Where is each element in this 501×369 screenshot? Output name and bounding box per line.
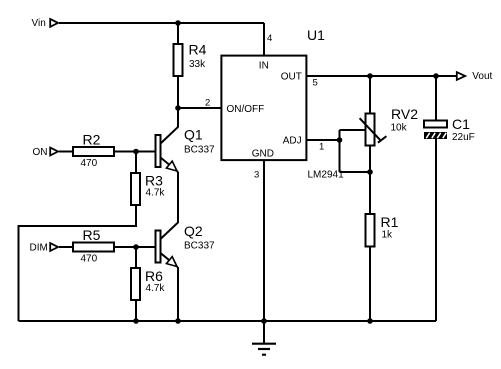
- svg-text:470: 470: [81, 158, 98, 169]
- svg-text:R5: R5: [83, 227, 101, 243]
- potentiometer RV2: [360, 106, 419, 146]
- svg-text:R4: R4: [189, 42, 207, 58]
- svg-text:Q2: Q2: [184, 223, 203, 239]
- resistor R5: [73, 227, 114, 265]
- ground symbol: [252, 344, 276, 355]
- svg-text:OUT: OUT: [281, 71, 302, 82]
- wire Q1 emitter to Q2 collector: [161, 172, 179, 240]
- svg-text:470: 470: [81, 254, 98, 265]
- junction node R4 top: [175, 20, 181, 26]
- wire ADJ pin 1: [307, 139, 340, 141]
- svg-text:33k: 33k: [189, 59, 206, 70]
- wire R4 top stub: [177, 23, 179, 44]
- wire bottom ground rail: [19, 320, 437, 322]
- wire R5 to Q2 base: [114, 246, 156, 248]
- svg-text:Q1: Q1: [184, 127, 203, 143]
- transistor Q1: [156, 108, 216, 172]
- resistor R3: [131, 173, 165, 206]
- svg-text:ADJ: ADJ: [283, 135, 302, 146]
- svg-text:4: 4: [267, 33, 272, 44]
- svg-text:U1: U1: [307, 27, 325, 43]
- svg-text:1k: 1k: [382, 230, 394, 241]
- svg-text:3: 3: [254, 170, 259, 181]
- transistor Q2: [156, 223, 216, 267]
- wire pin4 drop to IN: [263, 23, 265, 57]
- svg-text:IN: IN: [259, 60, 269, 71]
- junction node C1 top: [433, 73, 439, 79]
- junction node R1 ground: [367, 318, 373, 324]
- junction node Q2 emitter ground: [175, 318, 181, 324]
- svg-text:LM2941: LM2941: [308, 170, 345, 181]
- input flag Vin: [32, 18, 59, 29]
- op-amp U1 IC body LM2941: [221, 56, 306, 161]
- wire ON input to R2: [59, 151, 73, 153]
- resistor R2: [73, 132, 114, 170]
- wire R1 bottom stub: [369, 247, 371, 322]
- svg-text:ON: ON: [33, 147, 48, 158]
- junction node RV2 bottom: [367, 169, 373, 175]
- junction node ADJ: [337, 137, 343, 143]
- svg-text:C1: C1: [452, 116, 470, 132]
- svg-text:RV2: RV2: [391, 106, 418, 122]
- junction node Q1 base: [133, 149, 139, 155]
- wire ADJ loop bottom: [340, 171, 371, 173]
- wire Vin top rail: [59, 22, 264, 24]
- wire R6 top stub: [135, 247, 137, 268]
- junction node R6 ground: [133, 318, 139, 324]
- junction node Q2 base: [133, 244, 139, 250]
- wire RV2 wiper connection: [340, 129, 366, 131]
- resistor R1: [366, 214, 399, 247]
- wire R6 bottom stub: [135, 300, 137, 321]
- junction node GND stem: [261, 318, 267, 324]
- resistor R6: [131, 268, 165, 300]
- svg-text:GND: GND: [252, 149, 274, 160]
- wire Q2 emitter to rail: [177, 267, 179, 321]
- wire C1 bottom stub: [435, 139, 437, 321]
- svg-text:Vin: Vin: [32, 18, 46, 29]
- svg-text:BC337: BC337: [184, 241, 215, 252]
- svg-text:4.7k: 4.7k: [146, 283, 166, 294]
- wire RV2 bottom to R1 top: [369, 146, 371, 215]
- input flag DIM: [30, 243, 59, 254]
- wire node to ON/OFF pin 2: [178, 107, 222, 109]
- svg-text:R2: R2: [83, 132, 101, 148]
- capacitor C1: [424, 116, 475, 143]
- junction node ON/OFF: [175, 105, 181, 111]
- wire RV2 top stub: [369, 76, 371, 114]
- wire R3 bottom left loop to ground rail: [19, 205, 137, 321]
- svg-text:R1: R1: [381, 214, 399, 230]
- resistor R4: [174, 42, 207, 77]
- svg-text:22uF: 22uF: [452, 132, 475, 143]
- svg-text:5: 5: [313, 78, 318, 89]
- wire GND pin 3 stem: [263, 161, 265, 343]
- wire OUT pin 5 to Vout: [307, 75, 457, 77]
- wire R4 bottom to node: [177, 76, 179, 108]
- svg-text:DIM: DIM: [30, 243, 48, 254]
- output flag Vout: [457, 71, 493, 82]
- svg-text:ON/OFF: ON/OFF: [227, 104, 265, 115]
- svg-text:R3: R3: [145, 173, 163, 189]
- svg-text:BC337: BC337: [184, 145, 215, 156]
- wire ADJ loop vertical: [339, 130, 341, 172]
- svg-text:4.7k: 4.7k: [146, 188, 166, 199]
- svg-text:2: 2: [205, 98, 210, 109]
- svg-text:Vout: Vout: [472, 71, 492, 82]
- wire R3 top stub: [135, 152, 137, 174]
- wire C1 top stub: [435, 76, 437, 121]
- junction node RV2 top: [367, 73, 373, 79]
- wire DIM input to R5: [59, 246, 73, 248]
- input flag ON: [33, 147, 59, 158]
- svg-text:10k: 10k: [391, 123, 408, 134]
- svg-text:R6: R6: [145, 268, 163, 284]
- svg-text:1: 1: [319, 142, 324, 153]
- wire R2 to Q1 base: [114, 151, 156, 153]
